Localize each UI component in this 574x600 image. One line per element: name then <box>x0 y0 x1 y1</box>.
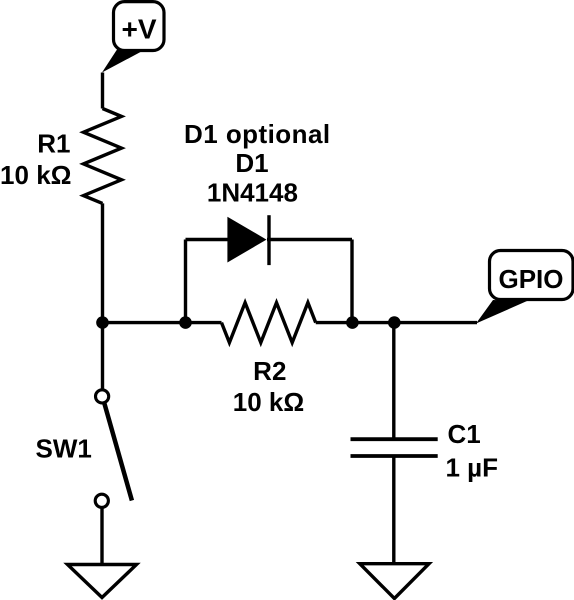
svg-text:D1 optional: D1 optional <box>184 119 331 149</box>
svg-text:R1: R1 <box>37 129 70 159</box>
svg-text:10 kΩ: 10 kΩ <box>0 160 71 190</box>
svg-text:+V: +V <box>121 14 156 45</box>
svg-text:1N4148: 1N4148 <box>207 177 298 207</box>
svg-text:R2: R2 <box>253 356 286 386</box>
svg-text:GPIO: GPIO <box>498 264 563 294</box>
svg-text:1 µF: 1 µF <box>446 453 499 483</box>
svg-text:D1: D1 <box>235 148 268 178</box>
svg-text:C1: C1 <box>448 419 481 449</box>
svg-text:10 kΩ: 10 kΩ <box>233 387 304 417</box>
svg-text:SW1: SW1 <box>36 434 92 464</box>
